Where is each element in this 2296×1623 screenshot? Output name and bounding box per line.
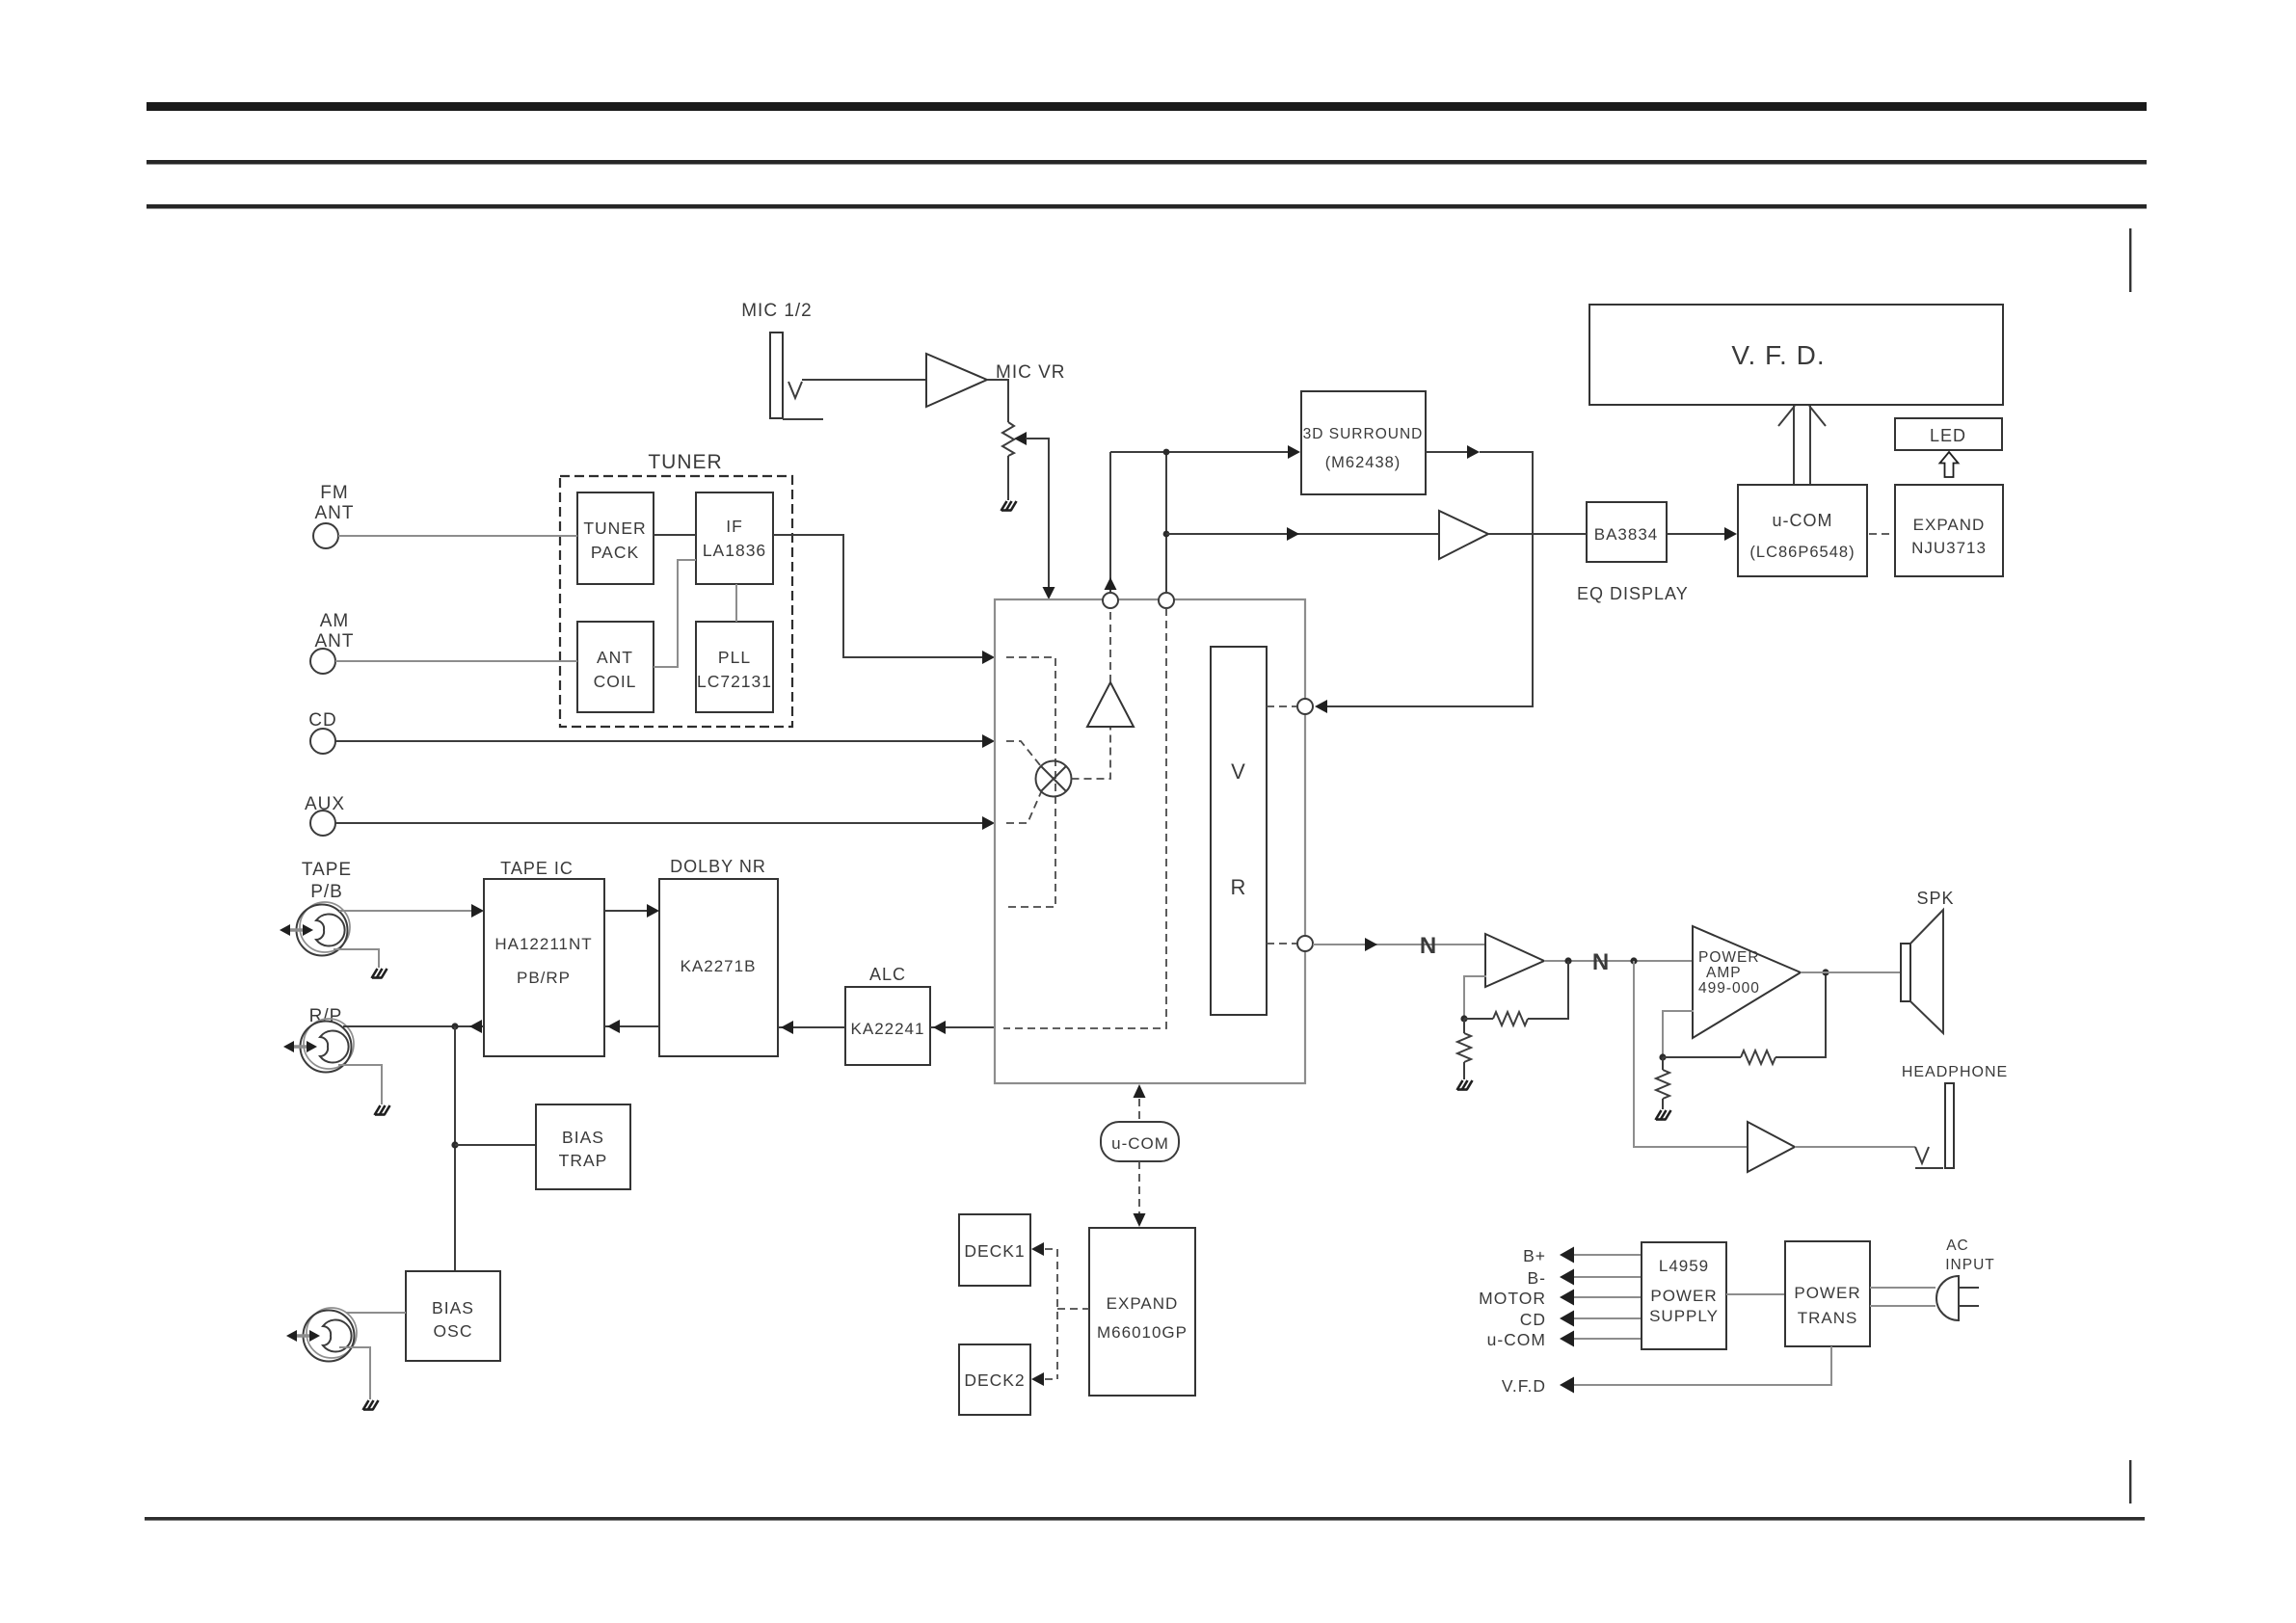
svg-text:SPK: SPK bbox=[1916, 889, 1954, 908]
junction feedback bbox=[1460, 1015, 1467, 1022]
wire to EQ amp bbox=[1166, 533, 1439, 535]
svg-text:P/B: P/B bbox=[310, 882, 343, 902]
DECK2 block bbox=[959, 1344, 1030, 1415]
svg-text:N: N bbox=[1592, 949, 1610, 975]
junction pa feedback bbox=[1659, 1053, 1666, 1060]
EXPAND M66010GP block bbox=[1089, 1228, 1195, 1396]
resistor power amp feedback bbox=[1741, 1051, 1775, 1064]
main selector/preamp IC box bbox=[995, 599, 1305, 1083]
dashed node B down to rec out bbox=[1003, 608, 1166, 1028]
svg-text:EQ DISPLAY: EQ DISPLAY bbox=[1577, 584, 1689, 603]
wire trans to V.F.D bbox=[1574, 1346, 1831, 1385]
right margin tick top bbox=[2129, 228, 2131, 292]
wire B+ bbox=[1574, 1254, 1642, 1256]
headphone jack bbox=[1915, 1147, 1929, 1163]
VR block bbox=[1211, 647, 1267, 1015]
svg-text:TRAP: TRAP bbox=[559, 1151, 608, 1170]
ground bbox=[1001, 501, 1017, 511]
arrow into big box FM bbox=[982, 651, 995, 664]
svg-text:KA2271B: KA2271B bbox=[681, 957, 757, 975]
svg-text:V.F.D: V.F.D bbox=[1502, 1376, 1546, 1396]
TUNER PACK block bbox=[577, 492, 654, 584]
op-amp EQ buffer bbox=[1439, 511, 1488, 559]
svg-text:u-COM: u-COM bbox=[1487, 1330, 1546, 1349]
arrow on 3D output bbox=[1467, 445, 1480, 459]
resistor preamp feedback bbox=[1493, 1012, 1528, 1025]
arrow on output wire bbox=[1365, 938, 1377, 951]
arrow into DECK2 bbox=[1031, 1372, 1044, 1386]
AM ANT terminal bbox=[310, 649, 335, 674]
dashed u-COM control line bbox=[1138, 1099, 1140, 1122]
svg-text:MOTOR: MOTOR bbox=[1479, 1289, 1546, 1308]
svg-text:AMP: AMP bbox=[1706, 965, 1742, 981]
wire FM ant to tuner pack bbox=[338, 535, 577, 537]
junction bbox=[1163, 531, 1170, 538]
wire junction to BIAS TRAP bbox=[455, 1144, 536, 1146]
FM ANT terminal bbox=[313, 523, 338, 548]
svg-text:HA12211NT: HA12211NT bbox=[494, 935, 592, 953]
svg-text:DECK2: DECK2 bbox=[964, 1370, 1025, 1390]
wire big box to ALC bbox=[930, 1026, 995, 1028]
PLL LC72131 block bbox=[696, 622, 773, 712]
op-amp preamp bbox=[1485, 934, 1544, 987]
svg-text:LC72131: LC72131 bbox=[697, 672, 772, 691]
dashed net expand to decks bbox=[1045, 1249, 1089, 1379]
wire ant coil to IF bbox=[654, 560, 696, 667]
resistor to ground bbox=[1463, 1019, 1465, 1079]
speaker SPK bbox=[1901, 944, 1910, 1001]
svg-text:u-COM: u-COM bbox=[1111, 1134, 1169, 1153]
svg-text:PLL: PLL bbox=[718, 648, 751, 667]
node circle right bottom bbox=[1297, 936, 1313, 951]
wire DOLBY to TAPE IC return bbox=[604, 1025, 659, 1027]
resistor pa to ground bbox=[1662, 1057, 1664, 1109]
dashed net from FM input bbox=[1006, 657, 1055, 907]
ground bbox=[363, 1400, 379, 1410]
wire AUX to big box bbox=[335, 822, 982, 824]
arrow u-COM bbox=[1560, 1331, 1574, 1347]
svg-text:POWER: POWER bbox=[1794, 1284, 1860, 1302]
dashed amp out to node A bbox=[1109, 608, 1111, 682]
svg-text:M66010GP: M66010GP bbox=[1097, 1323, 1188, 1342]
svg-text:u-COM: u-COM bbox=[1773, 511, 1833, 530]
arrow into big box AUX bbox=[982, 816, 995, 830]
svg-text:TUNER: TUNER bbox=[648, 451, 722, 473]
svg-text:CD: CD bbox=[1520, 1310, 1546, 1329]
svg-text:TAPE IC: TAPE IC bbox=[500, 859, 574, 878]
AUX terminal bbox=[310, 811, 335, 836]
tape head P/B bbox=[280, 902, 350, 956]
wire wiper down into big box bbox=[1026, 439, 1049, 587]
L4959 POWER SUPPLY block bbox=[1642, 1242, 1726, 1349]
svg-text:LA1836: LA1836 bbox=[703, 541, 766, 560]
wire EQ amp to BA3834 bbox=[1488, 533, 1587, 535]
op-amp MIC amp bbox=[926, 354, 987, 407]
wire bias head lower to ground bbox=[339, 1347, 370, 1399]
svg-text:N: N bbox=[1420, 933, 1437, 959]
arrow down into EXPAND bbox=[1134, 1213, 1146, 1227]
junction on speaker wire bbox=[1822, 969, 1829, 975]
dashed u-COM to expand bbox=[1138, 1161, 1140, 1213]
LED box bbox=[1895, 418, 2002, 450]
svg-text:R: R bbox=[1231, 875, 1247, 899]
node circle right top bbox=[1297, 699, 1313, 714]
arrow B- bbox=[1560, 1269, 1574, 1286]
arrow up on that wire bbox=[1105, 577, 1117, 590]
wire VFD arrow flares bbox=[1778, 406, 1826, 426]
wire second output vertical bbox=[1165, 452, 1167, 592]
svg-text:FM: FM bbox=[320, 483, 348, 503]
ANT COIL block bbox=[577, 622, 654, 712]
svg-text:V: V bbox=[1231, 759, 1246, 784]
wire u-COM bbox=[1574, 1338, 1642, 1340]
EXPAND NJU3713 box bbox=[1895, 485, 2003, 576]
ground bbox=[372, 969, 387, 978]
svg-text:EXPAND: EXPAND bbox=[1913, 516, 1986, 534]
dashed VR to right node top bbox=[1267, 705, 1296, 707]
wire box output to preamp bbox=[1313, 944, 1485, 945]
wire jack to mic amp bbox=[802, 379, 926, 381]
arrow B+ bbox=[1560, 1247, 1574, 1264]
svg-text:OSC: OSC bbox=[434, 1321, 473, 1341]
svg-text:SUPPLY: SUPPLY bbox=[1649, 1307, 1719, 1325]
AC plug prongs bbox=[1960, 1288, 1979, 1306]
arrow into TAPE IC return bbox=[607, 1020, 620, 1033]
svg-text:CD: CD bbox=[308, 710, 336, 731]
svg-text:LED: LED bbox=[1930, 426, 1966, 445]
arrow MOTOR bbox=[1560, 1290, 1574, 1306]
arrow CD bbox=[1560, 1311, 1574, 1327]
node circle output A on top edge bbox=[1103, 593, 1118, 608]
resistor MIC VR pot bbox=[1002, 422, 1014, 456]
svg-text:PACK: PACK bbox=[591, 543, 639, 562]
op-amp headphone amp bbox=[1748, 1122, 1795, 1172]
node circle output B on top edge bbox=[1159, 593, 1174, 608]
DECK1 block bbox=[959, 1214, 1030, 1286]
BIAS OSC block bbox=[406, 1271, 500, 1361]
arrow into ALC bbox=[933, 1021, 946, 1034]
svg-text:TRANS: TRANS bbox=[1798, 1309, 1858, 1327]
top thin rule 2 bbox=[147, 204, 2147, 209]
op-amp internal amp bbox=[1087, 682, 1134, 727]
ground bbox=[1656, 1110, 1671, 1120]
svg-text:PB/RP: PB/RP bbox=[517, 969, 571, 987]
3D SURROUND box bbox=[1301, 391, 1426, 494]
svg-text:TAPE: TAPE bbox=[302, 860, 352, 880]
wire bias head to BIAS OSC bbox=[346, 1312, 406, 1314]
right margin tick bottom bbox=[2129, 1460, 2131, 1503]
junction preamp out bbox=[1564, 957, 1571, 964]
junction bbox=[1163, 449, 1170, 456]
wire TAPE IC to DOLBY bbox=[604, 910, 647, 912]
svg-text:ANT: ANT bbox=[597, 648, 633, 667]
AC plug wires bbox=[1870, 1288, 1936, 1306]
feedback wire with resistor bbox=[1663, 1056, 1741, 1058]
wire P/B head to TAPE IC bbox=[339, 910, 471, 912]
wire preamp out bbox=[1544, 960, 1693, 962]
arrow into DOLBY return bbox=[781, 1021, 793, 1034]
svg-text:(LC86P6548): (LC86P6548) bbox=[1749, 544, 1855, 561]
CD terminal bbox=[310, 729, 335, 754]
wire IF out to big box input bbox=[773, 535, 982, 657]
feedback wire with resistor bbox=[1464, 1018, 1493, 1020]
junction at bias trap bbox=[451, 1141, 458, 1148]
svg-text:KA22241: KA22241 bbox=[851, 1020, 925, 1038]
top thin rule 1 bbox=[147, 160, 2147, 165]
DOLBY NR block bbox=[659, 879, 778, 1056]
arrow into big box CD bbox=[982, 734, 995, 748]
MIC jack bbox=[770, 333, 783, 418]
AC plug bbox=[1936, 1276, 1959, 1320]
wire amp out to pot bbox=[987, 380, 1008, 422]
svg-text:AM: AM bbox=[320, 611, 350, 631]
wire CD to big box bbox=[335, 740, 982, 742]
junction to headphone branch bbox=[1630, 957, 1637, 964]
wire power amp to speaker bbox=[1801, 971, 1901, 973]
svg-text:499-000: 499-000 bbox=[1698, 980, 1760, 997]
arrow out of TAPE IC to R/P bbox=[469, 1020, 482, 1033]
TUNER dashed enclosure bbox=[560, 476, 792, 727]
arrow into u-COM bbox=[1724, 527, 1737, 541]
V.F.D. display box bbox=[1589, 305, 2003, 405]
arrow into DECK1 bbox=[1031, 1242, 1044, 1256]
wire P/B head lower to ground bbox=[334, 949, 379, 968]
u-COM (LC86P6548) box bbox=[1738, 485, 1867, 576]
wire R/P head to TAPE IC bbox=[343, 1025, 484, 1027]
dashed mixer out to amp bbox=[1072, 727, 1111, 779]
svg-text:HEADPHONE: HEADPHONE bbox=[1902, 1064, 2008, 1080]
hollow up arrow to LED bbox=[1940, 452, 1959, 477]
wire box output up to 3D surround bbox=[1109, 452, 1111, 592]
arrow V.F.D bbox=[1560, 1377, 1574, 1394]
wire headphone branch bbox=[1634, 961, 1748, 1147]
arrow into right circle of big box bbox=[1315, 700, 1327, 713]
svg-text:TUNER: TUNER bbox=[583, 519, 646, 538]
junction on R/P wire bbox=[451, 1023, 458, 1029]
svg-text:AC: AC bbox=[1946, 1237, 1969, 1254]
svg-text:(M62438): (M62438) bbox=[1325, 454, 1402, 471]
TAPE IC block bbox=[484, 879, 604, 1056]
dashed VR to right node bottom bbox=[1267, 943, 1296, 945]
svg-text:NJU3713: NJU3713 bbox=[1911, 539, 1987, 557]
svg-text:POWER: POWER bbox=[1650, 1287, 1717, 1305]
BA3834 box bbox=[1587, 502, 1667, 562]
svg-text:B-: B- bbox=[1528, 1268, 1547, 1288]
wire ALC to DOLBY bbox=[778, 1026, 845, 1028]
svg-text:MIC 1/2: MIC 1/2 bbox=[741, 301, 813, 321]
svg-text:ALC: ALC bbox=[869, 965, 906, 984]
POWER TRANS block bbox=[1785, 1241, 1870, 1346]
wire IF to PLL bbox=[735, 584, 737, 622]
preamp feedback wire bbox=[1464, 976, 1486, 1019]
svg-text:IF: IF bbox=[726, 517, 743, 536]
svg-text:DECK1: DECK1 bbox=[964, 1241, 1025, 1261]
arrow up into box bottom from u-COM bbox=[1134, 1084, 1146, 1098]
BIAS TRAP block bbox=[536, 1104, 630, 1189]
wire CD bbox=[1574, 1317, 1642, 1319]
dashed link u-COM to EXPAND bbox=[1869, 533, 1893, 535]
svg-text:BIAS: BIAS bbox=[432, 1298, 474, 1317]
svg-text:DOLBY NR: DOLBY NR bbox=[670, 857, 766, 876]
svg-text:L4959: L4959 bbox=[1659, 1257, 1709, 1275]
svg-text:BA3834: BA3834 bbox=[1594, 525, 1659, 544]
wire R/P junction down to bias bbox=[454, 1026, 456, 1271]
wire VFD wide arrow verticals bbox=[1794, 406, 1810, 485]
u-COM bubble bbox=[1101, 1122, 1179, 1161]
wire 3D surround output bbox=[1426, 451, 1467, 453]
svg-text:POWER: POWER bbox=[1698, 949, 1760, 966]
arrow on EQ wire bbox=[1287, 527, 1299, 541]
ground bbox=[1457, 1080, 1473, 1090]
tape head R/P bbox=[283, 1019, 354, 1073]
wire pot to ground bbox=[1007, 456, 1009, 500]
dashed net from CD input to mixer bbox=[1006, 741, 1040, 765]
pot wiper arrow bbox=[1014, 432, 1027, 445]
wire R/P head lower to ground bbox=[338, 1065, 382, 1104]
svg-text:ANT: ANT bbox=[315, 503, 355, 523]
wire B- bbox=[1574, 1276, 1642, 1278]
svg-text:3D SURROUND: 3D SURROUND bbox=[1303, 426, 1424, 442]
top thick rule bbox=[147, 102, 2147, 111]
svg-text:BIAS: BIAS bbox=[562, 1128, 604, 1147]
wire supply to trans bbox=[1726, 1293, 1785, 1295]
op-amp POWER AMP bbox=[1693, 926, 1801, 1038]
ground bbox=[375, 1105, 390, 1115]
ALC KA22241 block bbox=[845, 987, 930, 1065]
dashed net from AUX input to mixer bbox=[1006, 792, 1041, 823]
arrow into 3D surround bbox=[1288, 445, 1300, 459]
wire AM ant to ant coil bbox=[335, 660, 577, 662]
svg-text:B+: B+ bbox=[1523, 1246, 1546, 1265]
mixer node bbox=[1036, 761, 1072, 797]
arrow into DOLBY bbox=[647, 904, 659, 918]
wire headphone amp to jack bbox=[1795, 1146, 1915, 1148]
bottom rule bbox=[145, 1517, 2145, 1521]
IF LA1836 block bbox=[696, 492, 773, 584]
svg-text:V. F. D.: V. F. D. bbox=[1731, 340, 1825, 370]
arrow down into box top bbox=[1043, 587, 1055, 599]
arrow into TAPE IC bbox=[471, 904, 484, 918]
svg-text:EXPAND: EXPAND bbox=[1107, 1294, 1179, 1313]
svg-text:INPUT: INPUT bbox=[1945, 1257, 1995, 1273]
tape head bias (bottom) bbox=[286, 1308, 357, 1362]
power amp feedback entry bbox=[1663, 1011, 1694, 1057]
svg-text:COIL: COIL bbox=[594, 672, 637, 691]
wire BA3834 to u-COM bbox=[1667, 533, 1725, 535]
wire tuner pack to IF bbox=[654, 534, 696, 536]
wire MOTOR bbox=[1574, 1296, 1642, 1298]
